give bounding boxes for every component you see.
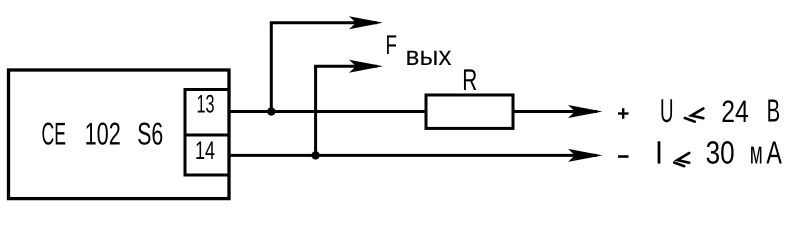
svg-text:CE: CE (42, 116, 67, 152)
symbol less-or-equal 1 (685, 109, 704, 122)
wire horizontal Fout upper (270, 21, 377, 24)
wire from pin 14 to output arrow (229, 154, 597, 157)
label CE 102 S6 (42, 116, 164, 152)
svg-text:102: 102 (85, 116, 121, 152)
svg-text:S6: S6 (137, 116, 163, 152)
arrow output + (568, 105, 603, 118)
arrow Fout upper (349, 16, 383, 29)
svg-text:вых: вых (406, 41, 452, 71)
label plus (618, 108, 629, 119)
svg-text:24: 24 (721, 94, 749, 129)
device box CE 102 S6 (9, 70, 230, 199)
svg-text:U: U (660, 92, 674, 129)
svg-text:А: А (766, 135, 782, 171)
node A junction dot (267, 107, 275, 115)
symbol less-or-equal 2 (674, 153, 689, 166)
node B junction dot (311, 151, 319, 159)
arrow Fout lower (349, 60, 383, 73)
wire from pin 13 to resistor (229, 110, 427, 113)
arrow output - (568, 149, 603, 162)
wire from resistor to output arrow (512, 110, 597, 113)
wire vertical from node B up (314, 66, 317, 155)
svg-text:30: 30 (706, 135, 735, 171)
svg-text:13: 13 (197, 91, 215, 119)
svg-text:м: м (750, 135, 763, 171)
wire vertical from node A up (270, 23, 273, 112)
label minus (618, 155, 629, 158)
svg-text:В: В (767, 93, 781, 129)
wire horizontal Fout lower (314, 65, 377, 68)
svg-text:R: R (462, 64, 477, 97)
label I (658, 141, 661, 163)
svg-text:F: F (386, 30, 398, 60)
resistor R (426, 95, 513, 128)
terminal block (185, 90, 229, 176)
svg-text:14: 14 (195, 137, 215, 165)
